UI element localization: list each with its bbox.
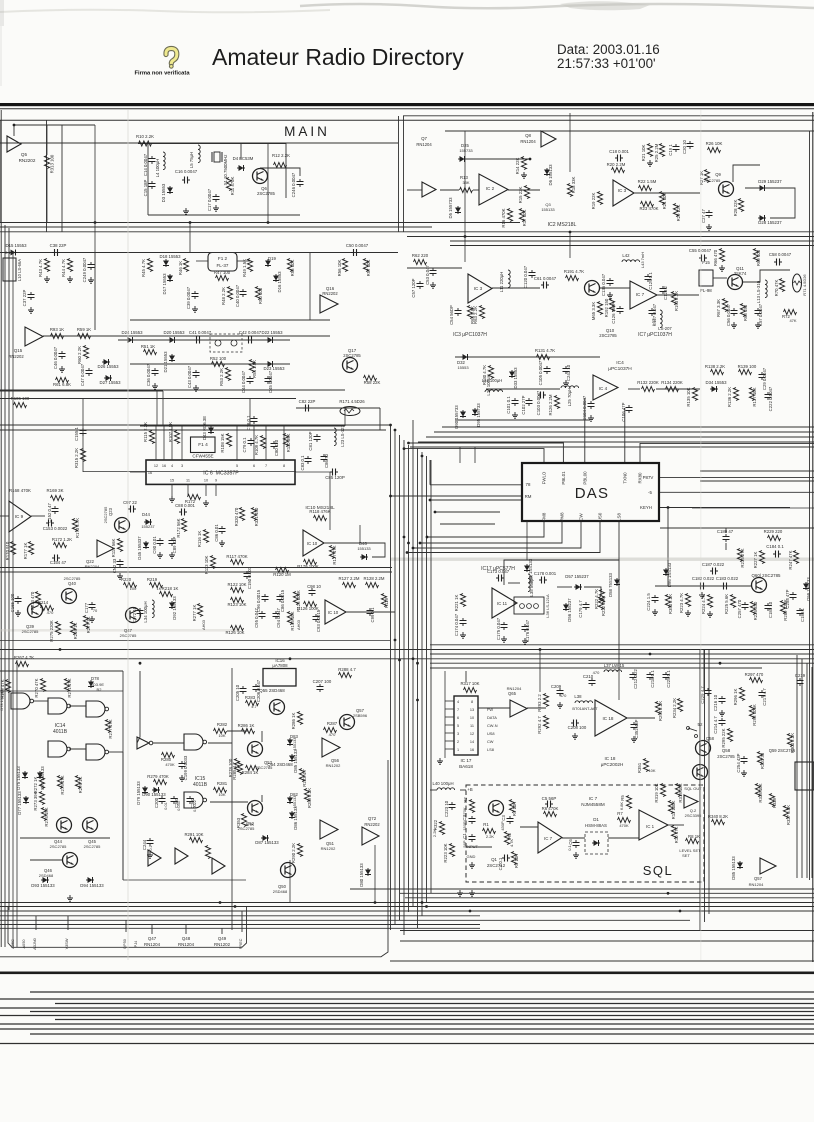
- label R122 value: [227, 582, 246, 587]
- label L35 value: [529, 575, 534, 596]
- svg-text:R117 470K: R117 470K: [226, 554, 247, 559]
- label R219v: [157, 586, 162, 591]
- label IC6 pin 11: [186, 479, 190, 483]
- label C18 value: [609, 149, 629, 154]
- svg-text:R137 10K: R137 10K: [752, 387, 757, 406]
- svg-text:C101 0.1: C101 0.1: [506, 396, 511, 414]
- svg-text:R46 1K: R46 1K: [178, 261, 183, 275]
- label IC17 pin 4: [457, 700, 459, 704]
- svg-text:R293 2.2: R293 2.2: [537, 694, 542, 712]
- resistor R25: [659, 144, 664, 157]
- svg-text:L25 70μH: L25 70μH: [567, 388, 572, 407]
- capacitor C173: [496, 575, 504, 582]
- node bottom node 6: [679, 910, 682, 913]
- label L43 lbl: [640, 252, 645, 268]
- svg-text:D26 15553: D26 15553: [97, 364, 119, 369]
- svg-text:2SC2785: 2SC2785: [599, 333, 617, 338]
- svg-text:R216 1K: R216 1K: [73, 623, 78, 640]
- wire far right bus v4: [811, 667, 813, 878]
- label Q1 lbl: [491, 857, 497, 862]
- capacitor C202: [187, 796, 194, 804]
- wire F12 left wire: [196, 260, 208, 262]
- label R130 value: [482, 365, 487, 385]
- wire bottom rule 7: [55, 1019, 814, 1021]
- wire center bus v2: [394, 430, 396, 925]
- wire v x268: [267, 144, 269, 223]
- svg-text:D6 155133: D6 155133: [548, 164, 553, 186]
- label R66 value: [713, 249, 718, 266]
- capacitor C120: [529, 270, 536, 278]
- svg-text:D28 155237: D28 155237: [758, 220, 782, 225]
- inductor L11: [508, 270, 510, 288]
- svg-text:RN1204: RN1204: [178, 942, 195, 947]
- wire bot stub 4: [185, 925, 187, 935]
- label R271 value: [67, 678, 72, 697]
- label C1v: [462, 840, 467, 847]
- ground c177 gnd: [89, 616, 95, 622]
- svg-text:CW-N: CW-N: [487, 723, 498, 728]
- svg-text:QP50: QP50: [122, 938, 127, 949]
- label R13 value: [460, 175, 468, 180]
- label C20 value: [682, 139, 687, 153]
- capacitor C128: [660, 286, 667, 294]
- svg-text:μPC1037H: μPC1037H: [608, 366, 632, 372]
- node DAS feed n2: [434, 511, 437, 514]
- label Q52 part: [238, 826, 255, 831]
- label R127b value: [338, 576, 359, 581]
- capacitor C212: [630, 672, 637, 680]
- node band node 6: [719, 662, 722, 665]
- svg-text:C88 0.001: C88 0.001: [175, 503, 195, 508]
- resistor R19: [597, 192, 602, 205]
- wire bottom rule 5: [30, 1011, 814, 1013]
- wire block divider b: [403, 116, 405, 232]
- wire gate45 wire: [69, 748, 86, 750]
- resistor R270: [40, 679, 45, 692]
- svg-text:RN1202: RN1202: [326, 763, 341, 768]
- label C200v: [164, 802, 168, 809]
- svg-text:12: 12: [470, 732, 474, 736]
- svg-text:R223 10K: R223 10K: [443, 843, 448, 862]
- capacitor C95: [259, 611, 266, 619]
- IC box right edge connector box: [795, 762, 814, 790]
- resistor R4: [509, 800, 514, 813]
- label R16 value: [501, 208, 506, 227]
- capacitor C41: [194, 337, 202, 344]
- wire bottom band b: [0, 906, 814, 908]
- wire bus right 481: [700, 480, 814, 482]
- svg-text:15: 15: [170, 479, 174, 483]
- label IC10 lbl: [305, 505, 335, 511]
- gate IC14 gate C: [86, 701, 109, 717]
- wire DAS feed h3: [440, 523, 495, 525]
- signature icon question mark: [166, 49, 177, 69]
- label IC17 signal US8: [487, 731, 495, 736]
- label C205 value: [235, 684, 240, 701]
- resistor R214: [41, 605, 54, 610]
- label R191 value: [564, 269, 584, 274]
- label C173 value: [487, 569, 510, 574]
- label C217 value: [762, 688, 767, 706]
- resistor R26: [708, 147, 721, 152]
- svg-text:4.7K: 4.7K: [246, 822, 255, 827]
- resistor R129: [381, 594, 386, 607]
- wire bottom band r3: [405, 897, 814, 899]
- capacitor C222: [765, 392, 772, 400]
- svg-text:C180 47: C180 47: [717, 529, 734, 534]
- label IC6 pin 9: [215, 479, 217, 483]
- ground row3 gnd3: [563, 380, 569, 386]
- svg-text:10: 10: [470, 716, 474, 720]
- label R136 value: [727, 387, 732, 407]
- label R280v: [165, 762, 175, 767]
- svg-text:C258 47P: C258 47P: [785, 589, 790, 608]
- svg-text:R11 100K: R11 100K: [671, 800, 676, 819]
- label D88 value: [731, 856, 736, 880]
- svg-text:L24 100μH: L24 100μH: [482, 378, 503, 383]
- ground band gnd3: [219, 540, 225, 546]
- label R19 value: [591, 193, 596, 210]
- label Q56 lbl: [331, 758, 340, 763]
- capacitor C199: [179, 761, 186, 769]
- svg-text:R287: R287: [327, 721, 338, 726]
- diode D57: [574, 584, 582, 590]
- svg-text:R169 3K: R169 3K: [46, 488, 63, 493]
- label R280 value: [161, 757, 172, 762]
- svg-text:C19 1: C19 1: [668, 144, 673, 156]
- label C82 value: [299, 399, 316, 404]
- capacitor C179: [583, 602, 590, 610]
- svg-text:CFW455E: CFW455E: [192, 454, 213, 459]
- L36 coil dots: [520, 604, 539, 609]
- wire DAS pin LS8: [618, 521, 620, 659]
- wire center bus v10: [430, 460, 432, 893]
- label D43 value: [202, 416, 207, 440]
- svg-text:R294 2.2K: R294 2.2K: [658, 701, 663, 721]
- svg-text:2SC2785: 2SC2785: [257, 191, 276, 196]
- transistor Q9 2SC2785: [719, 182, 734, 197]
- resistor R247: [793, 551, 798, 564]
- label C96 value: [256, 589, 261, 612]
- wire v x619b: [618, 659, 620, 700]
- resistor R66: [719, 249, 724, 262]
- svg-text:C217 4.7: C217 4.7: [762, 688, 767, 706]
- svg-text:R179 100K: R179 100K: [297, 564, 319, 569]
- svg-text:R68 150: R68 150: [743, 304, 748, 321]
- capacitor C79: [248, 438, 255, 446]
- wire bus bend a: [0, 424, 391, 426]
- wire bottom rule 8: [0, 1023, 814, 1025]
- label Q6 label: [261, 186, 267, 191]
- capacitor C38: [52, 249, 60, 256]
- label D5 value: [448, 197, 453, 219]
- label Q47 part: [144, 942, 161, 947]
- label IC6 pin 3: [181, 464, 183, 468]
- node das node 1: [403, 447, 406, 450]
- node das node 4: [419, 542, 422, 545]
- op-amp Q16 RN2202: [320, 295, 338, 313]
- svg-text:0.1: 0.1: [149, 845, 153, 850]
- wire outer bottom right: [390, 960, 814, 962]
- wire d29 wire: [745, 188, 795, 218]
- label R71 label: [802, 274, 807, 296]
- svg-text:D4 FC53M: D4 FC53M: [233, 156, 254, 161]
- svg-text:R123 10K: R123 10K: [227, 602, 246, 607]
- label R18 value: [571, 177, 576, 194]
- capacitor C246: [297, 179, 304, 187]
- resistor R29: [673, 204, 678, 217]
- diode D19: [265, 259, 271, 267]
- svg-text:R62 220: R62 220: [412, 253, 429, 258]
- resistor R225: [730, 595, 735, 608]
- label C249 value: [82, 257, 87, 282]
- label C244 value: [142, 839, 147, 850]
- label SET lbl: [682, 853, 690, 858]
- svg-text:R106 100: R106 100: [11, 396, 30, 401]
- svg-text:R281: R281: [217, 781, 228, 786]
- resistor R193: [671, 292, 676, 305]
- svg-text:C20 10: C20 10: [682, 139, 687, 153]
- wire v x465b: [464, 237, 466, 263]
- resistor R280: [162, 752, 175, 757]
- capacitor C206: [253, 684, 260, 692]
- svg-text:C224 1.5: C224 1.5: [646, 593, 651, 611]
- label R278 value: [228, 758, 233, 777]
- label R171 label: [339, 399, 365, 404]
- wire bottom band r2: [400, 892, 814, 894]
- svg-text:D20 15553: D20 15553: [163, 330, 185, 335]
- ground osc gnd2: [183, 208, 189, 214]
- wire R313 drop2: [46, 169, 48, 223]
- svg-text:IC10 MS218L: IC10 MS218L: [305, 505, 335, 511]
- svg-text:C154 47: C154 47: [50, 560, 67, 565]
- capacitor C3: [507, 816, 514, 824]
- label Q58c lbl: [722, 748, 731, 753]
- label R116 value: [197, 531, 202, 548]
- resistor R322: [439, 822, 444, 835]
- capacitor C17: [213, 194, 220, 202]
- IC box F15: [699, 270, 713, 286]
- svg-text:2SC2785: 2SC2785: [717, 754, 735, 759]
- ground right gnd2: [741, 770, 747, 776]
- label IC6 pin 7: [265, 464, 267, 468]
- label D86 value: [293, 806, 298, 830]
- resistor R53: [225, 368, 230, 381]
- svg-text:RN2202: RN2202: [19, 158, 36, 163]
- label R126c value: [297, 606, 319, 611]
- wire bottom rule 2: [0, 998, 814, 1000]
- label L4 value: [155, 159, 160, 178]
- resistor R221: [460, 594, 465, 607]
- resistor R27: [704, 170, 709, 183]
- wire bottom band c: [0, 910, 814, 912]
- svg-text:C223 10: C223 10: [444, 800, 449, 817]
- label net A050: [21, 939, 26, 949]
- label IC17 signal LS8: [487, 747, 494, 752]
- op-amp IC11: [492, 588, 517, 618]
- svg-text:DATA: DATA: [487, 715, 497, 720]
- wire DAS pin RM: [390, 495, 522, 497]
- capacitor C101: [512, 398, 519, 406]
- svg-text:R57 10K: R57 10K: [366, 260, 371, 277]
- capacitor C177: [89, 602, 96, 610]
- svg-text:C86 70: C86 70: [324, 453, 329, 467]
- label R351v: [648, 768, 655, 773]
- capacitor C43: [193, 370, 200, 378]
- resistor R285: [237, 762, 242, 775]
- resistor R222b: [599, 590, 604, 603]
- label C135 value: [601, 273, 606, 296]
- resistor R107: [174, 431, 179, 444]
- wire mid rail left b: [0, 398, 296, 400]
- label D93 value: [31, 883, 55, 888]
- ground ic11 gnd3: [522, 638, 528, 644]
- diode D23: [266, 361, 274, 367]
- label D21 value: [163, 351, 168, 373]
- wire band F2: [0, 649, 814, 651]
- op-amp Q48 RN1204: [175, 848, 188, 864]
- capacitor C90: [157, 538, 164, 546]
- label D87 value: [255, 840, 279, 845]
- svg-text:IC 7: IC 7: [589, 796, 598, 801]
- label DAS pin PM8: [560, 512, 565, 522]
- capacitor C135: [607, 278, 614, 286]
- label F12 part: [216, 263, 228, 268]
- wire row2 rail a: [407, 267, 462, 269]
- resistor R17: [519, 209, 524, 222]
- resistor R216: [70, 622, 75, 635]
- label C99 value: [370, 607, 375, 623]
- label C209v: [560, 693, 567, 698]
- resistor R24: [659, 192, 664, 205]
- label C41 value: [189, 330, 212, 335]
- label Q39 name: [26, 624, 35, 629]
- svg-text:C95 0.047: C95 0.047: [254, 607, 259, 627]
- capacitor C20: [687, 141, 694, 149]
- svg-text:LS8: LS8: [487, 747, 494, 752]
- capacitor C39: [192, 291, 199, 299]
- label D1 part: [585, 823, 607, 828]
- svg-text:R171 4.5D26: R171 4.5D26: [339, 399, 365, 404]
- label R286b value: [291, 713, 296, 730]
- label R72v: [789, 318, 796, 323]
- label C187 value: [702, 562, 725, 567]
- capacitor C58: [774, 259, 782, 266]
- svg-text:FL-37: FL-37: [216, 263, 228, 268]
- wire mid rail pair a: [0, 567, 392, 569]
- svg-text:155133: 155133: [357, 546, 371, 551]
- svg-text:R128 2.2M: R128 2.2M: [363, 576, 384, 581]
- svg-text:R318 10K: R318 10K: [678, 783, 683, 802]
- svg-text:C82 22P: C82 22P: [299, 399, 316, 404]
- label L23 label: [340, 425, 345, 447]
- svg-text:R170 910: R170 910: [5, 541, 10, 560]
- resistor R296: [739, 688, 744, 701]
- svg-text:C40 0.0047: C40 0.0047: [235, 284, 240, 307]
- wire r171 rail: [296, 407, 380, 409]
- label net A05C: [10, 939, 15, 949]
- svg-text:0.0022: 0.0022: [193, 800, 197, 812]
- label C155 value: [74, 426, 79, 440]
- resistor R177: [28, 542, 33, 555]
- svg-text:D3 15553: D3 15553: [161, 183, 166, 202]
- svg-text:C83 0.1: C83 0.1: [300, 455, 305, 471]
- wire IF rail: [0, 252, 398, 254]
- svg-text:C27 47: C27 47: [701, 208, 706, 222]
- label R317 value: [460, 681, 479, 686]
- label R17 value: [522, 210, 527, 227]
- wire IC6 pin 9 stub: [215, 484, 217, 496]
- svg-text:C16 0.0047: C16 0.0047: [175, 169, 198, 174]
- wire ic2 rail: [440, 189, 459, 191]
- svg-text:Q54 2SD468: Q54 2SD468: [267, 762, 293, 767]
- svg-text:Q5: Q5: [21, 152, 28, 157]
- ground row2 gnd2: [607, 292, 613, 298]
- svg-text:D56 155237: D56 155237: [567, 598, 572, 622]
- svg-text:C102 27P: C102 27P: [521, 395, 526, 414]
- op-amp IC3: [613, 180, 634, 206]
- capacitor C83: [305, 456, 312, 464]
- label Q54 lbl: [267, 762, 293, 767]
- wire q7 stub: [407, 189, 422, 191]
- label C258 value: [785, 589, 790, 608]
- diode D92: [169, 601, 175, 609]
- label IC17 signal DATA: [487, 715, 497, 720]
- wire r282 q53 wire: [227, 730, 248, 732]
- label IC17 pin 3: [457, 732, 459, 736]
- svg-text:R283: R283: [245, 695, 256, 700]
- diode D75: [22, 771, 28, 779]
- label IC6 pin 10: [204, 479, 208, 483]
- wire right bus v3: [708, 649, 710, 914]
- label IC17 pin 10: [470, 716, 474, 720]
- label C86 value: [324, 453, 329, 467]
- wire IF v c: [309, 253, 311, 321]
- capacitor C214: [719, 718, 726, 726]
- label R170 value: [5, 541, 10, 560]
- svg-text:3SK74: 3SK74: [734, 271, 747, 276]
- label IC17 pin 14: [470, 740, 474, 744]
- label R275b value: [49, 620, 54, 642]
- label Q49 lbl: [218, 936, 227, 941]
- wire IC6 left wire: [130, 471, 146, 473]
- svg-text:C1: C1: [462, 833, 467, 839]
- resistor R145: [287, 612, 292, 625]
- gate IC14 gate E: [86, 744, 109, 760]
- svg-text:14: 14: [470, 740, 474, 744]
- label R47 value: [214, 270, 231, 275]
- diode D34: [710, 386, 718, 392]
- svg-text:C219: C219: [795, 673, 806, 678]
- diode D46: [360, 554, 368, 560]
- label IC7sql lbl: [589, 796, 598, 801]
- svg-text:R22 1.5M: R22 1.5M: [638, 179, 657, 184]
- wire DAS pin 78: [430, 484, 522, 486]
- svg-text:C53 0.047: C53 0.047: [425, 264, 430, 284]
- label R12 value: [272, 153, 290, 158]
- node das node 10: [398, 659, 401, 662]
- svg-text:R129: R129: [384, 597, 389, 608]
- label R22 value: [638, 179, 657, 184]
- op-amp Q22 RN2204: [97, 540, 114, 557]
- resistor R223: [449, 844, 454, 857]
- svg-text:R223 4.7K: R223 4.7K: [679, 593, 684, 613]
- capacitor C46: [59, 351, 66, 359]
- wire q60 keyh wire: [667, 560, 669, 586]
- op-amp Q51 RN1202: [320, 820, 338, 839]
- wire q52 wire: [261, 795, 263, 802]
- svg-text:R120 1M: R120 1M: [273, 572, 291, 577]
